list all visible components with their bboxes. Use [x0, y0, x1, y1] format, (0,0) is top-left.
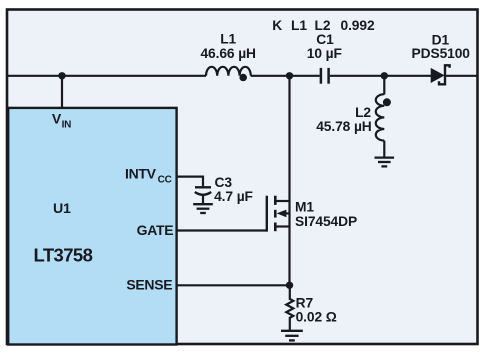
phase dot L2 — [383, 98, 391, 106]
svg-text:C1: C1 — [316, 32, 334, 47]
svg-text:LT3758: LT3758 — [34, 245, 93, 266]
transistor M1 body lead — [283, 212, 290, 214]
junction node at L2 column — [381, 72, 388, 79]
diode D1 schottky bar — [439, 65, 450, 84]
svg-text:PDS5100: PDS5100 — [412, 46, 471, 61]
svg-text:4.7 µF: 4.7 µF — [214, 189, 253, 204]
svg-text:45.78 µH: 45.78 µH — [316, 119, 372, 134]
svg-text:IN: IN — [62, 120, 72, 131]
transistor M1 drain lead — [275, 200, 289, 202]
wire main top rail left segment — [7, 75, 206, 77]
ground for R7 — [281, 331, 303, 341]
inductor L1 — [206, 67, 251, 76]
wire D1 to right frame — [445, 75, 478, 77]
svg-text:L1: L1 — [291, 18, 307, 33]
junction node at SENSE — [286, 282, 293, 289]
capacitor C3 top plate — [195, 186, 211, 188]
ground for C3 — [193, 204, 213, 213]
wire INTVCC to C3 — [177, 177, 203, 187]
svg-text:L1: L1 — [220, 31, 236, 46]
inductor L2 — [376, 94, 385, 140]
svg-text:M1: M1 — [295, 200, 314, 215]
svg-text:L2: L2 — [355, 105, 371, 120]
svg-text:INTV: INTV — [125, 165, 157, 181]
transistor M1 gate bar — [266, 196, 268, 232]
svg-text:0.992: 0.992 — [341, 18, 375, 33]
capacitor C1 plates — [320, 68, 323, 84]
op-amp U1 box LT3758 — [8, 108, 176, 345]
svg-text:V: V — [52, 111, 62, 127]
junction node at VIN — [58, 72, 65, 79]
junction node at drain column — [286, 72, 293, 79]
diode D1 triangle — [431, 69, 443, 83]
svg-text:CC: CC — [158, 174, 172, 185]
wire L2 drop — [383, 76, 385, 95]
transistor M1 source lead — [275, 225, 289, 227]
svg-text:R7: R7 — [296, 295, 314, 310]
resistor R7 — [286, 285, 293, 330]
capacitor C3 curved plate — [195, 192, 211, 195]
wire VIN drop — [61, 76, 63, 108]
svg-text:K: K — [272, 18, 282, 33]
wire C3 to ground — [202, 195, 204, 203]
phase dot L1 — [239, 74, 247, 82]
svg-text:SI7454DP: SI7454DP — [295, 214, 357, 229]
wire L1 to C1 — [251, 75, 320, 77]
svg-text:0.02 Ω: 0.02 Ω — [296, 310, 337, 325]
wire SENSE to junction — [177, 284, 290, 286]
svg-text:10 µF: 10 µF — [307, 46, 342, 61]
wire L2 to ground — [383, 141, 385, 157]
node label K L1 L2 0.992 — [272, 18, 375, 33]
wire GATE to M1 — [177, 229, 267, 231]
wire drain drop / source run at x=289.5 — [288, 76, 290, 285]
svg-text:SENSE: SENSE — [126, 277, 172, 293]
svg-text:U1: U1 — [53, 201, 71, 217]
ground for L2 — [375, 158, 395, 167]
svg-text:46.66 µH: 46.66 µH — [200, 46, 256, 61]
wire C1 to D1 — [330, 75, 431, 77]
transistor M1 body arrow — [277, 210, 287, 218]
transistor M1 channel segments — [274, 196, 277, 205]
svg-text:GATE: GATE — [137, 222, 174, 238]
svg-text:L2: L2 — [315, 18, 331, 33]
svg-text:C3: C3 — [215, 175, 233, 190]
